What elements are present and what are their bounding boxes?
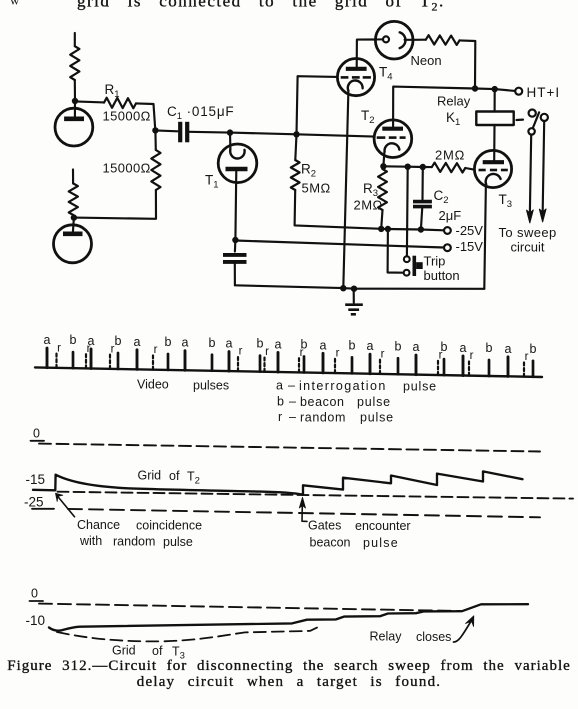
svg-text:a: a — [44, 333, 51, 347]
interrogation pulse a at x=416 — [413, 340, 420, 375]
svg-text:Grid: Grid — [112, 644, 136, 658]
neon internal left lead — [376, 38, 383, 40]
svg-text:circuit: circuit — [511, 240, 545, 255]
svg-text:of: of — [152, 644, 163, 658]
interrogation pulse a at x=47 — [44, 333, 51, 368]
valve T3 envelope — [474, 150, 511, 187]
wire cathode rail segment — [408, 166, 423, 168]
svg-text:pulse: pulse — [363, 536, 399, 550]
wire resistor to node — [72, 215, 75, 218]
svg-text:C1 ·015μF: C1 ·015μF — [167, 104, 234, 122]
node: junction R1 / C1 / 15000-ohm divider — [152, 127, 158, 133]
node: HT rail / relay branch — [492, 86, 498, 92]
top page text fragment (cut off): "grid is connected to the grid of T2." — [10, 0, 445, 14]
wire T2 cathode to node — [383, 152, 384, 166]
svg-text:a: a — [320, 338, 327, 352]
resistor R2 — [291, 160, 300, 190]
svg-text:coincidence: coincidence — [136, 519, 202, 533]
svg-text:b: b — [530, 342, 537, 356]
wire top stub above left resistor — [74, 33, 76, 46]
wire to 2M resistor — [423, 166, 432, 168]
wire -25V rail to terminal — [421, 228, 444, 231]
wire capacitor to earth bus — [234, 262, 236, 285]
random pulse r at x=153 — [153, 344, 158, 370]
svg-text:b: b — [209, 336, 216, 350]
svg-text:T1: T1 — [205, 173, 219, 191]
switch contact (right fixed) — [541, 114, 548, 121]
random pulse r at x=438 — [438, 350, 443, 376]
valve (lower-left, plate only) envelope — [54, 225, 92, 263]
wire HT node down to relay coil — [494, 89, 496, 111]
wire T4 anode up to neon — [357, 40, 376, 69]
wire T1 anode down to node — [234, 169, 237, 240]
random pulse r at x=264.5 — [265, 346, 270, 372]
svg-text:pulse: pulse — [357, 395, 391, 409]
svg-text:C2: C2 — [434, 188, 449, 206]
valve (lower-left) anode bar — [63, 232, 83, 237]
wire 2M resistor to T3 grid — [465, 168, 474, 170]
valve T2 grid dashes — [377, 136, 386, 139]
random pulse r at x=86 — [86, 343, 91, 369]
svg-text:T2: T2 — [361, 108, 375, 126]
node: T4 grid / R2 top junction — [293, 131, 299, 137]
svg-text:Trip: Trip — [424, 254, 446, 269]
svg-text:closes: closes — [416, 630, 451, 644]
wire junction down to R2 — [295, 134, 296, 160]
svg-text:pulse: pulse — [360, 411, 394, 425]
wire junction to T2 grid — [297, 134, 375, 136]
terminal HT+ — [515, 88, 522, 95]
wire waveform grid of T3 (solid) — [49, 604, 528, 630]
wire relay coil to T3 anode — [493, 125, 495, 161]
wire T1 node to -15V terminal — [235, 241, 444, 248]
wire earth bus to T3 cathode corner — [354, 288, 484, 290]
relay K1 coil box — [476, 112, 513, 126]
svg-text:b: b — [395, 339, 402, 353]
wire T2 anode riser + HT rail — [393, 87, 475, 127]
svg-text:b: b — [70, 333, 77, 347]
svg-text:R3: R3 — [363, 181, 378, 199]
resistor (neon series) — [426, 35, 460, 45]
interrogation pulse a at x=463 — [460, 341, 467, 376]
valve T3 cathode arc — [486, 174, 501, 184]
beacon pulse b at x=260 — [257, 337, 264, 372]
svg-text:Relay: Relay — [437, 94, 471, 109]
svg-text:Grid: Grid — [138, 469, 162, 483]
svg-text:0: 0 — [31, 587, 38, 601]
switch blade — [533, 112, 539, 128]
wire T3 cathode to earth bus — [484, 184, 486, 289]
beacon pulse b at x=533 — [530, 342, 537, 377]
wire earth bus — [235, 285, 343, 288]
trip button lower contact — [404, 270, 410, 276]
node: lower-left valve plate junction — [71, 214, 77, 220]
interrogation pulse a at x=185 — [182, 336, 189, 371]
svg-text:K1: K1 — [446, 110, 460, 128]
svg-text:pulse: pulse — [163, 535, 193, 549]
wire C1 node down to 15000-ohm resistor — [154, 130, 157, 150]
svg-text:r: r — [57, 342, 61, 354]
random pulse r at x=299 — [299, 347, 304, 373]
wire 0-level dashed line (grid of T2 plot) — [39, 444, 540, 452]
wire cathode rail down to C2 — [421, 167, 423, 200]
resistor 15000 ohms (divider) — [151, 150, 160, 190]
svg-text:2MΩ: 2MΩ — [435, 148, 465, 163]
arrow chance coincidence — [56, 493, 75, 517]
svg-text:-25V: -25V — [456, 223, 484, 238]
svg-text:pulses: pulses — [193, 379, 229, 393]
svg-text:T3: T3 — [499, 192, 513, 210]
node: -25V rail / C2 — [418, 226, 424, 232]
wire trip upper branch — [406, 167, 409, 256]
wire T2 cathode node to R3 — [382, 166, 385, 169]
wire node down into T1 cathode — [229, 133, 232, 149]
svg-text:interrogation: interrogation — [299, 379, 387, 393]
svg-text:a: a — [226, 337, 233, 351]
beacon pulse b at x=489 — [486, 341, 493, 376]
wire R2 to -25V rail — [295, 190, 382, 229]
beacon pulse b at x=398 — [395, 339, 402, 374]
svg-text:R2: R2 — [301, 162, 316, 180]
wire switch to sweep (left arrow) — [530, 135, 531, 212]
wire T1 node down to bypass capacitor — [234, 240, 237, 252]
random pulse r at x=56.5 — [57, 342, 62, 368]
svg-text:encounter: encounter — [355, 519, 411, 533]
svg-text:-15: -15 — [26, 472, 46, 487]
wire neon to series resistor — [413, 39, 426, 41]
node: earth bus / T4 cathode — [340, 285, 346, 291]
wire R1 to C1 node — [136, 103, 155, 130]
svg-text:2μF: 2μF — [439, 208, 462, 223]
beacon pulse b at x=212 — [209, 336, 216, 371]
arrow gates encounter — [299, 497, 307, 521]
svg-text:of: of — [169, 469, 180, 483]
wire 0-level dashed (grid of T3 plot) — [39, 604, 461, 611]
wire -25 dashed level — [68, 509, 540, 517]
interrogation pulse a at x=229 — [226, 337, 233, 372]
beacon pulse b at x=118 — [115, 334, 122, 369]
svg-text:b: b — [115, 334, 122, 348]
svg-text:-25: -25 — [24, 495, 44, 510]
valve T1 envelope — [218, 144, 257, 183]
svg-text:T2: T2 — [187, 470, 200, 487]
svg-text:r: r — [525, 351, 529, 363]
svg-text:beacon: beacon — [310, 536, 351, 550]
wire T4 grid from junction — [297, 76, 338, 134]
wire -15 dashed level — [58, 492, 574, 499]
svg-text:b: b — [277, 395, 284, 409]
svg-text:–: – — [288, 379, 295, 393]
svg-text:with: with — [79, 534, 102, 548]
interrogation pulse a at x=137 — [134, 335, 141, 370]
switch contact (upper fixed) — [529, 110, 536, 117]
valve T3 grid dashes — [479, 169, 486, 172]
beacon pulse b at x=304 — [301, 337, 308, 372]
valve T2 anode bar — [382, 127, 403, 131]
node: -25V rail / trip lower branch — [385, 226, 391, 232]
svg-text:r: r — [111, 343, 115, 355]
node: cathode rail / C2 branch — [420, 164, 426, 170]
wire dashed decay (grid of T3 plot) — [57, 628, 317, 642]
svg-text:b: b — [349, 338, 356, 352]
svg-text:15000Ω: 15000Ω — [103, 161, 151, 176]
svg-text:Chance: Chance — [77, 518, 120, 532]
svg-text:r: r — [154, 344, 158, 356]
interrogation pulse a at x=508 — [505, 342, 512, 377]
random pulse r at x=524 — [524, 351, 529, 377]
capacitor C1 — [178, 122, 182, 143]
svg-text:r: r — [336, 348, 340, 360]
wire node into lower-left valve — [73, 218, 74, 234]
svg-text:button: button — [424, 268, 460, 283]
svg-text:r: r — [265, 346, 269, 358]
relay mechanical link dash — [517, 118, 524, 121]
capacitor C2 — [413, 200, 432, 204]
node: C1 / T1 top junction — [227, 129, 233, 135]
svg-text:15000Ω: 15000Ω — [103, 109, 151, 124]
svg-text:–: – — [289, 410, 296, 424]
beacon pulse b at x=73 — [70, 333, 77, 368]
interrogation pulse a at x=278 — [275, 338, 282, 373]
svg-text:HT+I: HT+I — [527, 85, 561, 100]
svg-text:r: r — [87, 343, 91, 355]
svg-text:r: r — [381, 348, 385, 360]
beacon pulse b at x=352 — [349, 338, 356, 373]
beacon pulse b at x=168 — [165, 335, 172, 370]
svg-text:a: a — [460, 341, 467, 355]
svg-text:a: a — [134, 335, 141, 349]
trip button bar — [413, 256, 417, 276]
random pulse r at x=469 — [469, 350, 474, 376]
svg-text:random: random — [113, 535, 155, 549]
resistor (plate load, upper-left) — [70, 46, 79, 80]
trip button plunger nub — [416, 262, 423, 269]
wire cathode rail — [383, 165, 407, 168]
neon internal lead — [405, 39, 413, 41]
terminal -25V — [444, 227, 451, 234]
capacitor (bypass, under T1) — [223, 253, 247, 257]
svg-text:r: r — [239, 346, 243, 358]
interrogation pulse a at x=323 — [320, 338, 327, 373]
wire C1 to T1 grid node — [189, 131, 230, 134]
svg-text:0: 0 — [33, 427, 40, 441]
svg-text:beacon: beacon — [300, 395, 345, 409]
wire divider resistor to lower-left valve node — [74, 190, 156, 219]
svg-text:a: a — [275, 338, 282, 352]
svg-text:a: a — [505, 342, 512, 356]
trip button upper contact — [404, 256, 410, 262]
svg-text:a: a — [367, 339, 374, 353]
svg-text:-10: -10 — [26, 613, 46, 628]
node: cathode rail / trip branch — [405, 164, 411, 170]
node: T1 anode / bypass capacitor / -15V rail — [232, 237, 238, 243]
random pulse r at x=335 — [335, 348, 340, 374]
wire resistor to HT rail — [460, 40, 476, 88]
resistor 2M-ohm (T3 grid) — [432, 163, 466, 173]
svg-text:T4: T4 — [379, 65, 393, 83]
wire HT rail segment — [475, 87, 495, 90]
wire C2 to -25V rail — [421, 207, 422, 230]
valve T4 cathode arc — [348, 81, 363, 91]
wire node to C1 — [155, 129, 177, 132]
node: earth bus / ground stem — [351, 286, 357, 292]
wire switch to sweep (right arrow) — [543, 121, 545, 210]
interrogation pulse a at x=91 — [88, 334, 95, 369]
svg-text:2MΩ: 2MΩ — [354, 198, 383, 213]
svg-text:pulse: pulse — [403, 380, 437, 394]
valve (upper-left, plate only) envelope — [55, 108, 93, 146]
arrowhead left — [527, 210, 534, 223]
valve T4 grid dashes — [341, 76, 349, 79]
neon lamp envelope — [375, 21, 413, 59]
node: R3 / -25V rail — [378, 226, 384, 232]
resistor R1 — [104, 98, 136, 109]
wire -25V rail segment — [388, 228, 421, 231]
interrogation pulse a at x=370 — [367, 339, 374, 374]
svg-text:a: a — [413, 340, 420, 354]
wire resistor to node — [74, 80, 76, 101]
wire node to R1 — [75, 101, 104, 102]
valve (upper-left) anode bar — [64, 117, 84, 122]
svg-text:r: r — [300, 347, 304, 359]
random pulse r at x=110 — [110, 343, 115, 369]
valve T1 anode bar — [226, 167, 248, 172]
svg-text:b: b — [257, 337, 264, 351]
wire T4 cathode down to earth bus — [343, 91, 348, 288]
resistor (plate load, lower-left) — [69, 184, 78, 216]
arrowhead right — [539, 209, 546, 222]
wire stub above lower-left resistor — [72, 170, 74, 184]
wire earth bus segment — [343, 287, 354, 290]
caption line 2 — [0, 674, 578, 691]
node: T2 cathode / R3 — [380, 163, 386, 169]
svg-text:5MΩ: 5MΩ — [302, 181, 331, 196]
valve T1 cathode arc — [230, 149, 244, 159]
switch contact (lower, armature pivot) — [528, 128, 534, 134]
svg-text:Video: Video — [137, 378, 169, 392]
valve T4 anode bar — [346, 67, 367, 71]
wire -25V rail segment — [381, 228, 388, 230]
svg-text:To sweep: To sweep — [499, 225, 557, 240]
valve T4 envelope — [337, 59, 374, 96]
svg-text:w: w — [10, 0, 20, 8]
neon lamp dot electrode — [383, 36, 389, 42]
svg-text:r: r — [278, 410, 282, 424]
svg-text:Relay: Relay — [370, 630, 403, 644]
node: junction R1 / plate of upper-left valve — [72, 98, 78, 104]
wire trip lower branch — [388, 229, 404, 273]
svg-text:r: r — [470, 350, 474, 362]
valve T2 cathode arc — [385, 143, 400, 152]
svg-text:–: – — [289, 395, 296, 409]
caption line 1 — [0, 658, 578, 675]
neon lamp arc electrode — [400, 32, 406, 48]
random pulse r at x=380 — [380, 348, 385, 374]
valve T3 anode bar — [483, 160, 504, 164]
wire node into valve envelope — [74, 101, 76, 118]
arrow relay closes — [454, 616, 474, 642]
valve T2 envelope — [374, 120, 412, 158]
wire junction to T2 grid (long) — [230, 133, 297, 135]
svg-text:r: r — [439, 350, 443, 362]
wire waveform grid of T2 (solid) — [33, 471, 523, 494]
svg-text:Neon: Neon — [411, 53, 442, 68]
svg-text:b: b — [165, 335, 172, 349]
node baseline of video-pulse diagram — [35, 367, 542, 377]
svg-text:grid is connected to the grid: grid is connected to the grid of T2. — [77, 0, 445, 14]
ground — [345, 289, 363, 315]
resistor R3 — [378, 169, 387, 210]
svg-text:a: a — [276, 379, 283, 393]
svg-text:-15V: -15V — [456, 239, 484, 254]
terminal -15V — [444, 244, 451, 251]
wire R3 to -25V rail — [381, 210, 382, 229]
svg-text:random: random — [300, 411, 346, 425]
node: HT rail / neon branch — [472, 85, 478, 91]
wire HT rail to terminal — [495, 89, 515, 91]
svg-text:b: b — [486, 341, 493, 355]
beacon pulse b at x=444 — [441, 340, 448, 375]
random pulse r at x=238 — [238, 346, 243, 372]
svg-text:a: a — [182, 336, 189, 350]
svg-text:Gates: Gates — [308, 519, 341, 533]
